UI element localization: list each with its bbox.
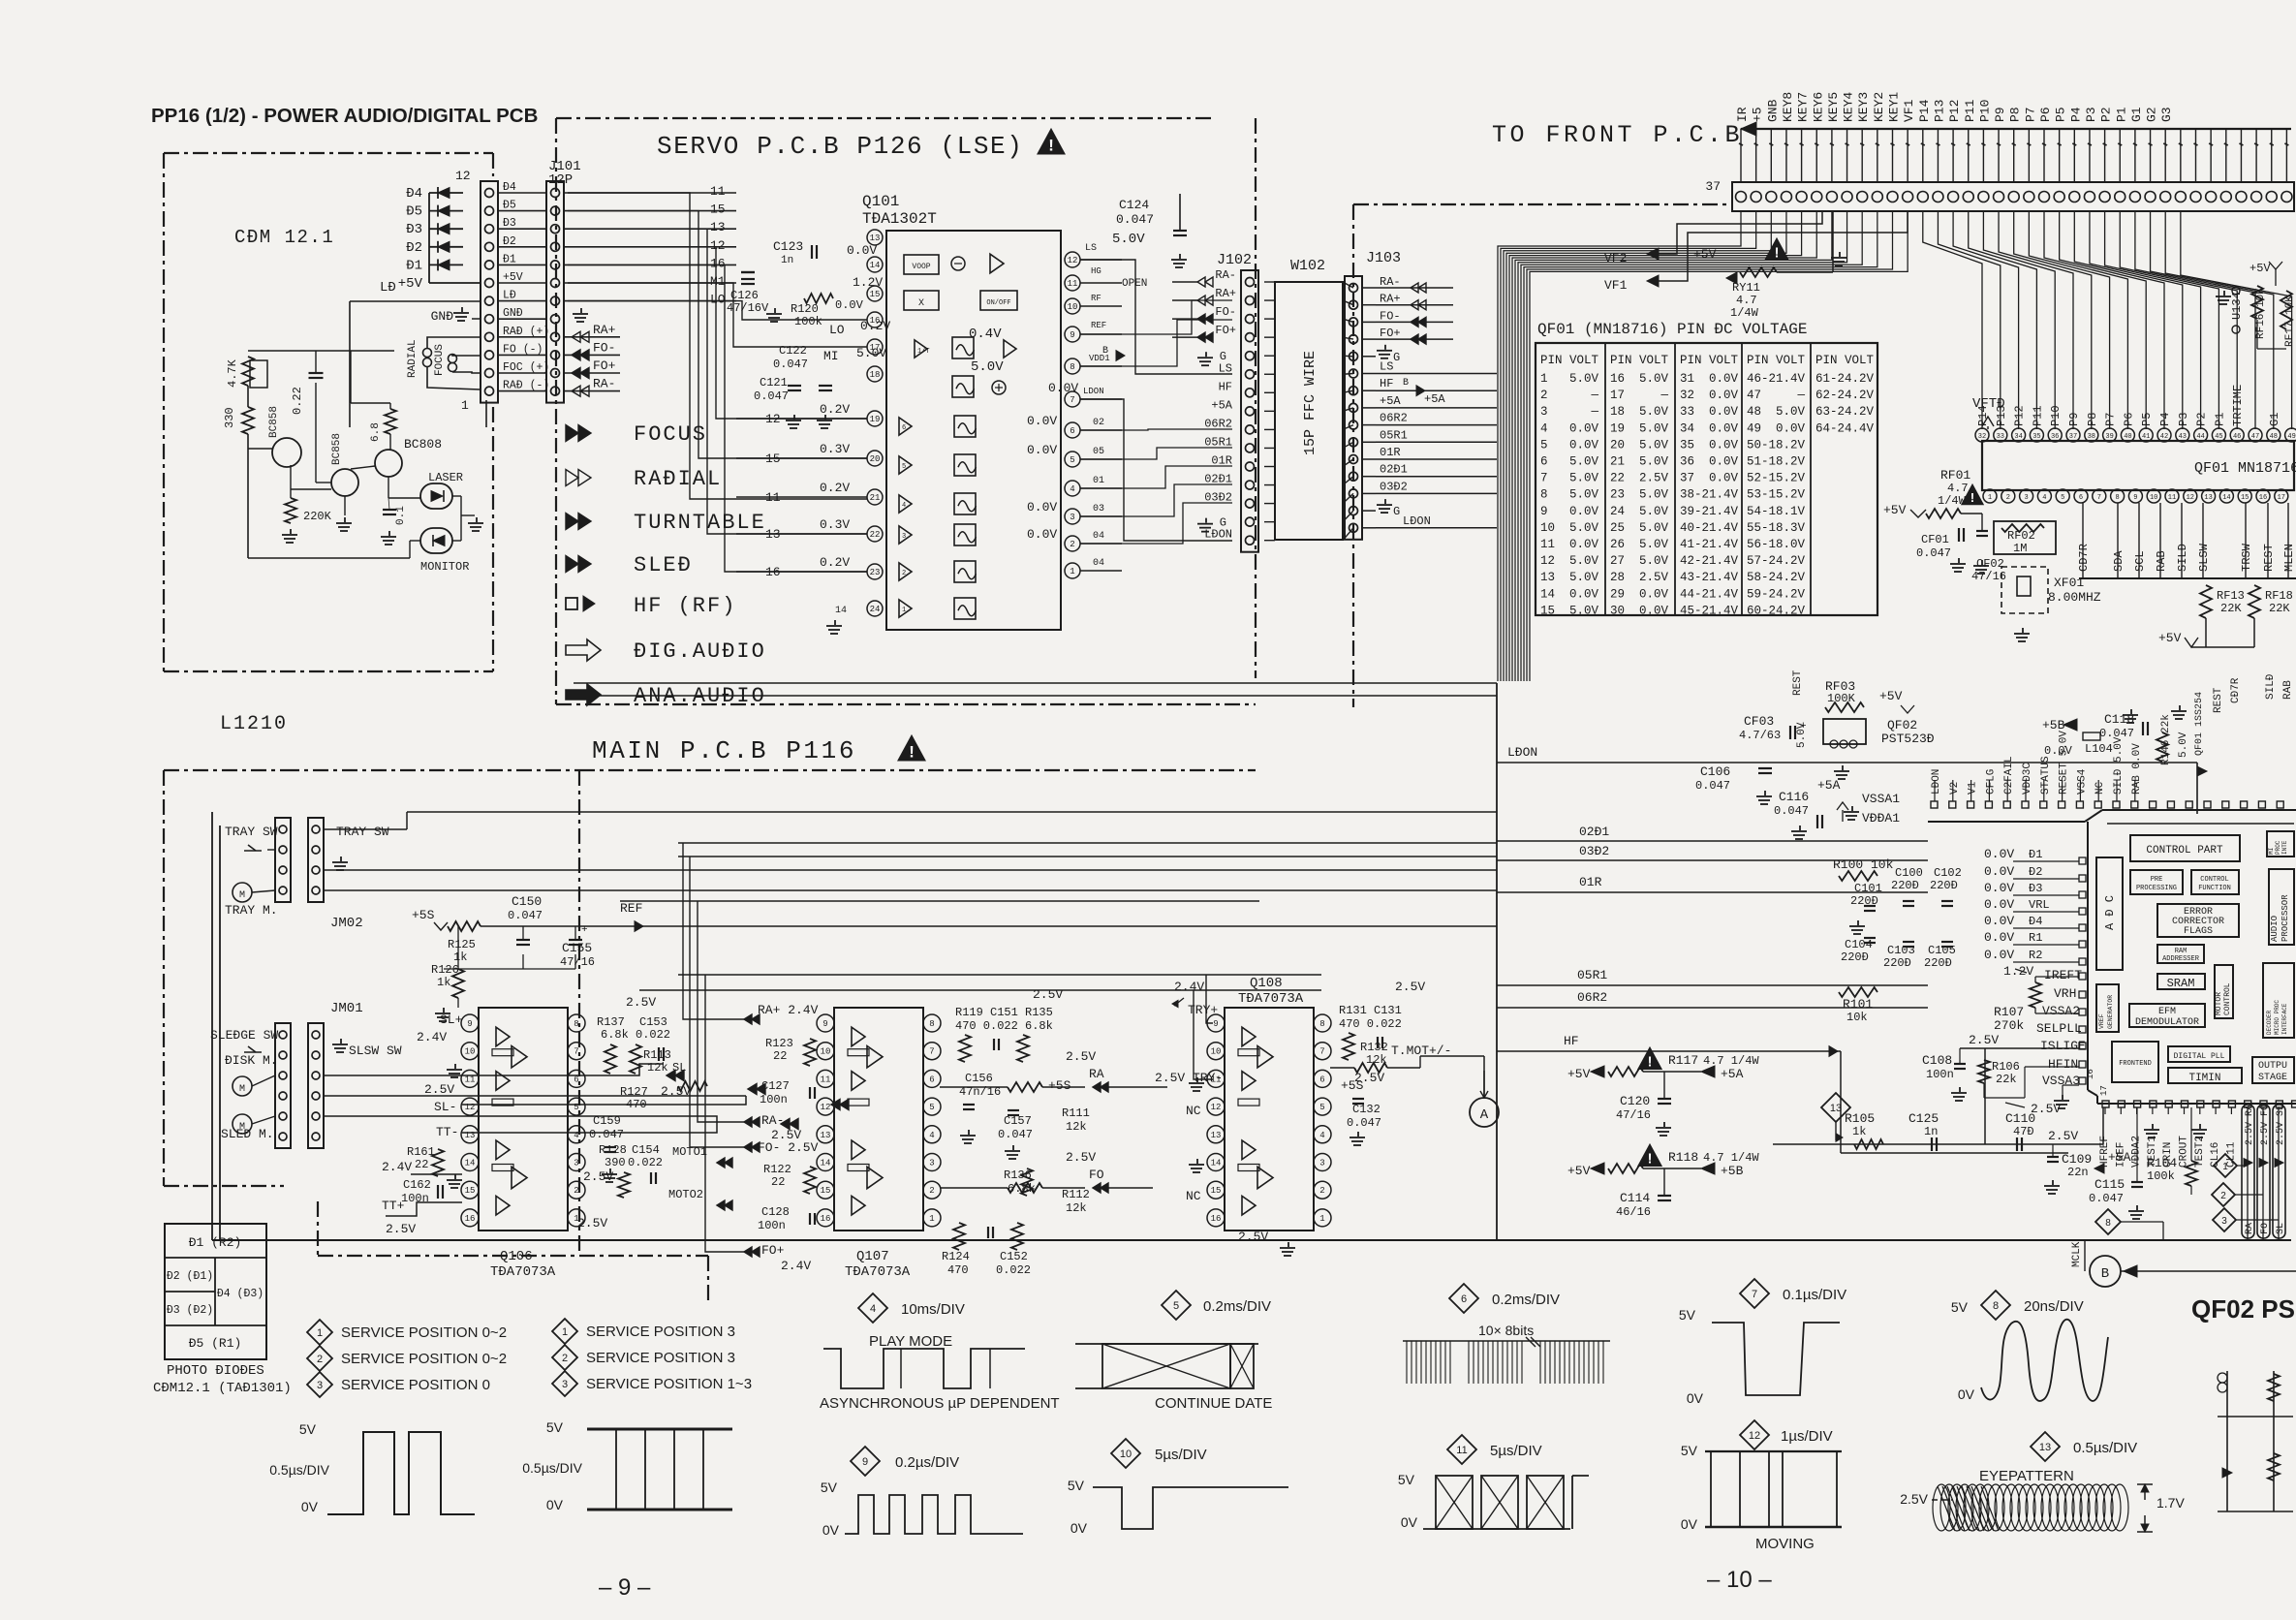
svg-text:PST523Ð: PST523Ð xyxy=(1881,732,1935,746)
svg-text:Q106: Q106 xyxy=(500,1249,533,1264)
svg-text:40: 40 xyxy=(2124,433,2131,441)
svg-text:03Ð2: 03Ð2 xyxy=(1579,844,1609,858)
svg-text:4: 4 xyxy=(574,1131,578,1140)
svg-text:01R: 01R xyxy=(1211,454,1232,468)
svg-text:MOTO2: MOTO2 xyxy=(668,1188,703,1201)
svg-text:0.0V: 0.0V xyxy=(1984,948,2014,962)
svg-text:0.0V: 0.0V xyxy=(835,298,864,312)
svg-text:R136: R136 xyxy=(1004,1168,1032,1182)
svg-text:5: 5 xyxy=(902,463,906,471)
svg-text:R131 C131: R131 C131 xyxy=(1339,1004,1402,1017)
svg-text:0.0V: 0.0V xyxy=(1776,421,1806,435)
svg-text:4.7K: 4.7K xyxy=(226,358,239,388)
svg-text:PRE: PRE xyxy=(2151,876,2163,884)
svg-text:0.0V: 0.0V xyxy=(1569,505,1599,518)
svg-text:6.8: 6.8 xyxy=(370,422,382,442)
svg-text:9: 9 xyxy=(1540,505,1548,518)
svg-text:11: 11 xyxy=(821,1075,831,1084)
svg-text:24: 24 xyxy=(870,605,881,614)
svg-text:C127: C127 xyxy=(761,1079,790,1093)
svg-text:R120: R120 xyxy=(791,302,819,316)
svg-text:SÐA: SÐA xyxy=(2112,550,2125,572)
svg-text:05R1: 05R1 xyxy=(1380,428,1408,442)
svg-text:2.5V: 2.5V xyxy=(1639,472,1669,485)
svg-text:RA+: RA+ xyxy=(1215,287,1236,300)
svg-text:16: 16 xyxy=(710,256,726,270)
svg-text:100K: 100K xyxy=(1827,692,1856,705)
svg-text:J102: J102 xyxy=(1217,252,1252,268)
svg-text:18: 18 xyxy=(870,370,881,380)
svg-text:38: 38 xyxy=(1680,488,1694,502)
svg-text:NC: NC xyxy=(1186,1189,1201,1203)
svg-text:3: 3 xyxy=(2221,1216,2227,1227)
svg-text:220Ð: 220Ð xyxy=(1883,956,1911,970)
svg-text:PIN VOLT: PIN VOLT xyxy=(1747,354,1806,367)
svg-text:15: 15 xyxy=(1540,604,1555,617)
svg-text:RA+: RA+ xyxy=(593,323,616,337)
svg-text:INTERFACE: INTERFACE xyxy=(2281,1003,2288,1035)
svg-text:1n: 1n xyxy=(781,255,793,266)
svg-text:3: 3 xyxy=(902,533,906,541)
svg-text:13: 13 xyxy=(1211,1131,1222,1140)
svg-text:R123: R123 xyxy=(765,1037,793,1050)
svg-text:LDON: LDON xyxy=(1083,387,1104,396)
svg-text:1: 1 xyxy=(1070,567,1074,576)
svg-text:R107: R107 xyxy=(1994,1005,2024,1019)
svg-text:CF01: CF01 xyxy=(1921,533,1949,546)
svg-text:15: 15 xyxy=(870,290,881,299)
svg-text:9: 9 xyxy=(1070,330,1074,340)
svg-text:2: 2 xyxy=(2220,1191,2226,1201)
svg-text:46: 46 xyxy=(1747,372,1761,386)
svg-text:2: 2 xyxy=(317,1354,323,1365)
svg-text:12P: 12P xyxy=(548,172,573,188)
svg-text:C104: C104 xyxy=(1845,938,1873,951)
svg-text:TRSW: TRSW xyxy=(2240,543,2253,572)
svg-text:SELPLL: SELPLL xyxy=(2036,1021,2082,1036)
svg-text:X: X xyxy=(918,298,924,309)
svg-text:RA+: RA+ xyxy=(1380,293,1401,306)
svg-text:P13: P13 xyxy=(1995,405,2008,426)
svg-text:20: 20 xyxy=(1610,438,1625,452)
svg-text:FO+: FO+ xyxy=(761,1243,785,1258)
svg-text:3: 3 xyxy=(929,1159,934,1168)
svg-text:VSSA1: VSSA1 xyxy=(1862,792,1900,806)
svg-text:VF2: VF2 xyxy=(1604,251,1627,265)
svg-text:04: 04 xyxy=(1093,558,1104,569)
svg-text:+5A: +5A xyxy=(1424,392,1445,406)
svg-text:LÐ: LÐ xyxy=(380,280,396,296)
svg-text:P3: P3 xyxy=(2177,413,2190,426)
svg-text:0.1µs/DIV: 0.1µs/DIV xyxy=(1783,1287,1846,1303)
svg-text:0.0V: 0.0V xyxy=(1984,930,2014,945)
svg-text:VOOP: VOOP xyxy=(912,263,930,271)
svg-text:01R: 01R xyxy=(1380,446,1401,459)
svg-text:C114: C114 xyxy=(1620,1191,1650,1205)
svg-text:0.2V: 0.2V xyxy=(860,319,890,333)
svg-text:C154: C154 xyxy=(632,1143,660,1157)
svg-text:0.0V: 0.0V xyxy=(1048,381,1078,395)
svg-text:05: 05 xyxy=(1093,447,1104,457)
svg-text:8: 8 xyxy=(2105,1218,2111,1229)
svg-text:TÐA7073A: TÐA7073A xyxy=(1238,991,1304,1007)
svg-text:11: 11 xyxy=(1456,1445,1467,1456)
svg-text:0.0V: 0.0V xyxy=(1984,864,2014,879)
svg-text:R2: R2 xyxy=(2029,949,2042,962)
svg-text:5µs/DIV: 5µs/DIV xyxy=(1490,1443,1542,1459)
svg-text:0.0V: 0.0V xyxy=(1709,438,1739,452)
svg-text:ÐISK M.: ÐISK M. xyxy=(225,1053,278,1068)
svg-text:Ð5: Ð5 xyxy=(406,204,422,220)
svg-text:A: A xyxy=(1480,1107,1489,1123)
svg-text:R161: R161 xyxy=(407,1145,435,1159)
svg-text:P11: P11 xyxy=(1963,99,1977,122)
svg-text:0V: 0V xyxy=(301,1499,319,1514)
svg-text:21: 21 xyxy=(870,493,881,503)
svg-text:57: 57 xyxy=(1747,554,1761,568)
svg-text:BC858: BC858 xyxy=(268,406,280,438)
svg-text:56: 56 xyxy=(1747,538,1761,551)
svg-text:P9: P9 xyxy=(1993,107,2007,122)
svg-text:SERVICE POSITION 3: SERVICE POSITION 3 xyxy=(586,1350,735,1366)
svg-text:C106: C106 xyxy=(1700,764,1730,779)
svg-text:Q108: Q108 xyxy=(1250,976,1283,991)
svg-text:3: 3 xyxy=(562,1379,568,1390)
svg-text:Ð4: Ð4 xyxy=(2029,915,2042,928)
svg-text:9: 9 xyxy=(1213,1019,1218,1029)
svg-text:NC: NC xyxy=(2094,781,2106,794)
svg-text:0.5µs/DIV: 0.5µs/DIV xyxy=(2073,1440,2137,1456)
svg-text:0.0V: 0.0V xyxy=(1027,443,1057,457)
svg-text:48: 48 xyxy=(2270,433,2278,441)
svg-text:2: 2 xyxy=(574,1186,578,1196)
svg-text:Q101: Q101 xyxy=(862,193,899,210)
svg-text:5.0V: 5.0V xyxy=(1639,554,1669,568)
svg-text:61: 61 xyxy=(1815,372,1830,386)
svg-text:AUDIO: AUDIO xyxy=(2270,916,2280,942)
svg-text:32: 32 xyxy=(1680,389,1694,402)
svg-text:470 0.022 6.8k: 470 0.022 6.8k xyxy=(955,1019,1053,1033)
svg-text:M: M xyxy=(239,1122,245,1133)
svg-text:FO+: FO+ xyxy=(1215,324,1236,337)
svg-text:0.047: 0.047 xyxy=(508,909,543,922)
svg-text:0.0V: 0.0V xyxy=(1709,372,1739,386)
svg-text:Ð3: Ð3 xyxy=(406,222,422,237)
svg-text:6: 6 xyxy=(929,1075,934,1084)
svg-text:2: 2 xyxy=(562,1353,568,1364)
svg-text:MOVING: MOVING xyxy=(1755,1536,1815,1552)
svg-text:2: 2 xyxy=(1070,540,1074,549)
svg-text:—: — xyxy=(1796,389,1805,402)
svg-text:100n: 100n xyxy=(401,1192,429,1205)
svg-text:C126: C126 xyxy=(730,289,759,302)
svg-text:P5: P5 xyxy=(2054,107,2068,122)
svg-text:22: 22 xyxy=(771,1175,785,1189)
svg-text:10: 10 xyxy=(1068,302,1078,312)
svg-text:15: 15 xyxy=(821,1186,831,1196)
svg-text:1: 1 xyxy=(1319,1214,1324,1224)
svg-text:5.0V: 5.0V xyxy=(856,346,886,360)
svg-text:0V: 0V xyxy=(1687,1390,1704,1406)
svg-text:2.5V: 2.5V xyxy=(577,1216,607,1231)
svg-text:G1: G1 xyxy=(2129,107,2144,122)
svg-text:5.0V: 5.0V xyxy=(1776,405,1806,419)
svg-text:2.5V: 2.5V xyxy=(1639,571,1669,584)
svg-text:B: B xyxy=(1102,346,1108,357)
svg-text:60: 60 xyxy=(1747,604,1761,617)
svg-text:CONTINUE DATE: CONTINUE DATE xyxy=(1155,1395,1272,1412)
svg-text:0.0V: 0.0V xyxy=(1984,847,2014,861)
svg-text:2.4V: 2.4V xyxy=(417,1030,447,1044)
svg-text:!: ! xyxy=(909,743,915,762)
svg-text:0.0V: 0.0V xyxy=(1709,472,1739,485)
svg-text:KEY8: KEY8 xyxy=(1781,92,1795,122)
svg-text:-21.4V: -21.4V xyxy=(1694,604,1739,617)
svg-text:470: 470 xyxy=(947,1263,969,1277)
svg-text:12: 12 xyxy=(2187,494,2194,502)
svg-text:0.047: 0.047 xyxy=(1116,212,1154,227)
svg-text:P10: P10 xyxy=(1977,100,1992,122)
svg-text:R100 10k: R100 10k xyxy=(1833,857,1894,872)
svg-text:OPEN: OPEN xyxy=(1122,278,1147,290)
svg-text:24: 24 xyxy=(1610,505,1625,518)
svg-text:RF17 10K: RF17 10K xyxy=(2284,296,2296,347)
svg-text:PIN VOLT: PIN VOLT xyxy=(1610,354,1669,367)
svg-text:KEY5: KEY5 xyxy=(1826,92,1841,122)
svg-text:4: 4 xyxy=(1540,421,1548,435)
svg-text:35: 35 xyxy=(1680,438,1694,452)
svg-text:FOCUS: FOCUS xyxy=(634,422,707,447)
svg-text:R128: R128 xyxy=(599,1143,627,1157)
svg-text:5.0V: 5.0V xyxy=(1639,372,1669,386)
svg-text:20ns/DIV: 20ns/DIV xyxy=(2024,1298,2084,1315)
svg-text:W102: W102 xyxy=(1290,258,1325,274)
svg-text:HF: HF xyxy=(1564,1034,1579,1048)
svg-text:2: 2 xyxy=(1319,1186,1324,1196)
svg-text:Ð4: Ð4 xyxy=(406,186,422,202)
svg-text:6.8k: 6.8k xyxy=(601,1028,629,1042)
svg-text:5.0V: 5.0V xyxy=(1569,455,1599,469)
svg-text:LS: LS xyxy=(1219,361,1232,375)
svg-text:-18.2V: -18.2V xyxy=(1761,438,1806,452)
svg-text:0.0V: 0.0V xyxy=(1709,455,1739,469)
svg-text:0.1: 0.1 xyxy=(395,506,407,525)
svg-text:TO FRONT P.C.B: TO FRONT P.C.B xyxy=(1492,121,1743,149)
svg-text:FO-: FO- xyxy=(1380,309,1401,323)
svg-text:2.5V: 2.5V xyxy=(1900,1491,1928,1507)
svg-text:5.0V: 5.0V xyxy=(1112,232,1145,247)
svg-text:7: 7 xyxy=(1319,1047,1324,1057)
svg-text:04: 04 xyxy=(1093,531,1104,542)
svg-text:+5S: +5S xyxy=(412,908,435,922)
svg-text:11: 11 xyxy=(2168,494,2176,502)
svg-text:0.2ms/DIV: 0.2ms/DIV xyxy=(1203,1298,1271,1315)
svg-text:03Ð2: 03Ð2 xyxy=(1380,480,1408,493)
svg-text:SERVICE POSITION 0~2: SERVICE POSITION 0~2 xyxy=(341,1324,507,1341)
svg-text:SLEÐGE SW: SLEÐGE SW xyxy=(210,1028,278,1043)
svg-text:TRAY M.: TRAY M. xyxy=(225,903,278,918)
svg-text:TRY+: TRY+ xyxy=(1188,1003,1218,1017)
svg-text:10: 10 xyxy=(465,1047,476,1057)
svg-text:CF03: CF03 xyxy=(1744,714,1774,729)
svg-text:4.7 1/4W: 4.7 1/4W xyxy=(1703,1151,1759,1165)
svg-text:1k: 1k xyxy=(437,976,450,989)
svg-text:REST: REST xyxy=(1792,670,1804,696)
svg-text:+5V: +5V xyxy=(1879,689,1903,703)
svg-text:1.2V: 1.2V xyxy=(853,275,883,290)
svg-text:LASER: LASER xyxy=(428,471,463,484)
svg-text:—: — xyxy=(1590,405,1598,419)
svg-text:55: 55 xyxy=(1747,521,1761,535)
svg-text:12: 12 xyxy=(1211,1103,1222,1112)
svg-text:7: 7 xyxy=(574,1047,578,1057)
svg-text:PHOTO ÐIOÐES: PHOTO ÐIOÐES xyxy=(167,1363,264,1379)
svg-text:5V: 5V xyxy=(546,1419,564,1435)
svg-text:14: 14 xyxy=(1211,1159,1222,1168)
svg-text:C124: C124 xyxy=(1119,198,1149,212)
svg-text:5V: 5V xyxy=(821,1480,838,1495)
svg-text:G: G xyxy=(1393,505,1400,518)
svg-text:Ð2: Ð2 xyxy=(2029,865,2042,879)
svg-text:5.0V: 5.0V xyxy=(971,359,1004,375)
svg-text:1: 1 xyxy=(461,398,469,413)
svg-text:19: 19 xyxy=(870,415,881,424)
svg-text:C101: C101 xyxy=(1854,882,1882,895)
svg-text:8: 8 xyxy=(1993,1300,1999,1312)
svg-text:6: 6 xyxy=(1319,1075,1324,1084)
svg-text:CÐ7R: CÐ7R xyxy=(2077,544,2091,572)
svg-text:0.047: 0.047 xyxy=(2099,727,2134,740)
svg-text:!: ! xyxy=(1970,490,1974,505)
svg-text:RY11: RY11 xyxy=(1732,281,1760,295)
svg-text:+5S: +5S xyxy=(1048,1078,1071,1093)
svg-text:JM01: JM01 xyxy=(330,1001,363,1016)
svg-text:MAIN P.C.B P116: MAIN P.C.B P116 xyxy=(592,736,856,765)
svg-text:Q107: Q107 xyxy=(856,1249,889,1264)
svg-text:SERVICE POSITION 0~2: SERVICE POSITION 0~2 xyxy=(341,1351,507,1367)
svg-text:0.047: 0.047 xyxy=(2089,1192,2124,1205)
svg-text:!: ! xyxy=(1648,1055,1653,1071)
svg-text:P2: P2 xyxy=(2099,107,2114,122)
svg-text:35: 35 xyxy=(2032,433,2040,441)
svg-text:PIN VOLT: PIN VOLT xyxy=(1680,354,1739,367)
svg-text:FO+: FO+ xyxy=(593,358,616,373)
svg-text:QF02: QF02 xyxy=(1887,718,1917,732)
svg-text:03Ð2: 03Ð2 xyxy=(1204,491,1232,505)
svg-text:0.047: 0.047 xyxy=(589,1128,624,1141)
svg-text:0.5µs/DIV: 0.5µs/DIV xyxy=(269,1462,329,1478)
svg-text:RADIAL: RADIAL xyxy=(407,339,419,378)
svg-text:05R1: 05R1 xyxy=(1204,435,1232,449)
svg-text:P6: P6 xyxy=(2038,107,2053,122)
svg-text:5.0V: 5.0V xyxy=(1639,455,1669,469)
svg-text:05R1: 05R1 xyxy=(1577,968,1607,982)
svg-text:VSSA3: VSSA3 xyxy=(2042,1074,2080,1088)
svg-text:100k: 100k xyxy=(794,315,822,328)
svg-text:14: 14 xyxy=(870,261,881,270)
svg-text:R127: R127 xyxy=(620,1085,648,1099)
svg-text:22n: 22n xyxy=(2067,1166,2089,1179)
svg-text:0.0V: 0.0V xyxy=(847,243,877,258)
svg-text:3: 3 xyxy=(1319,1159,1324,1168)
svg-text:47/16V: 47/16V xyxy=(727,301,769,315)
svg-text:C110: C110 xyxy=(2005,1111,2035,1126)
svg-text:Ð2 (Ð1): Ð2 (Ð1) xyxy=(167,1270,213,1283)
svg-text:15: 15 xyxy=(1211,1186,1222,1196)
svg-text:06R2: 06R2 xyxy=(1577,990,1607,1005)
svg-text:CFLG: CFLG xyxy=(1985,769,1997,794)
svg-text:– 9 –: – 9 – xyxy=(599,1574,651,1601)
svg-text:-24.2V: -24.2V xyxy=(1761,571,1806,584)
svg-text:-24.2V: -24.2V xyxy=(1830,389,1875,402)
svg-text:16: 16 xyxy=(2259,494,2267,502)
svg-text:5.0V: 5.0V xyxy=(1639,405,1669,419)
svg-text:12k: 12k xyxy=(1066,1120,1087,1134)
svg-text:01R: 01R xyxy=(1579,875,1602,889)
svg-text:SCL: SCL xyxy=(2133,550,2147,572)
svg-text:VF1: VF1 xyxy=(1604,278,1628,293)
svg-text:-21.4V: -21.4V xyxy=(1694,505,1739,518)
svg-text:ÐIG.AUÐIO: ÐIG.AUÐIO xyxy=(634,639,766,664)
svg-text:100k: 100k xyxy=(2147,1169,2175,1183)
svg-text:0.022: 0.022 xyxy=(636,1028,670,1042)
svg-text:0V: 0V xyxy=(1401,1514,1418,1530)
svg-text:CONTROL: CONTROL xyxy=(2223,982,2232,1015)
svg-text:C109: C109 xyxy=(2062,1152,2092,1167)
svg-text:TIMIN: TIMIN xyxy=(2188,1073,2220,1084)
svg-text:33: 33 xyxy=(1997,433,2004,441)
svg-text:P8: P8 xyxy=(2008,107,2023,122)
svg-text:+5A: +5A xyxy=(1211,398,1232,412)
svg-text:PIN VOLT: PIN VOLT xyxy=(1540,354,1599,367)
svg-text:7: 7 xyxy=(1752,1289,1757,1300)
svg-text:RAB 0.0V: RAB 0.0V xyxy=(2131,743,2143,794)
svg-text:4.7 1/4W: 4.7 1/4W xyxy=(1703,1054,1759,1068)
svg-text:HF (RF): HF (RF) xyxy=(634,594,736,618)
svg-text:0.047: 0.047 xyxy=(754,389,789,403)
svg-text:5V: 5V xyxy=(1681,1443,1698,1458)
svg-text:470: 470 xyxy=(626,1098,647,1111)
svg-text:KEY6: KEY6 xyxy=(1811,92,1825,122)
svg-text:17: 17 xyxy=(2278,494,2285,502)
svg-text:R119 C151 R135: R119 C151 R135 xyxy=(955,1006,1053,1019)
svg-text:-18.3V: -18.3V xyxy=(1761,521,1806,535)
svg-text:22k: 22k xyxy=(1996,1073,2017,1086)
svg-text:34: 34 xyxy=(2014,433,2022,441)
svg-text:LÐON: LÐON xyxy=(1507,745,1537,760)
svg-text:-15.2V: -15.2V xyxy=(1761,472,1806,485)
svg-text:32: 32 xyxy=(1978,433,1986,441)
svg-text:2: 2 xyxy=(902,570,906,577)
svg-text:FRONTEND: FRONTEND xyxy=(2119,1060,2152,1068)
svg-text:8: 8 xyxy=(574,1019,578,1029)
svg-text:0.5µs/DIV: 0.5µs/DIV xyxy=(522,1460,582,1476)
svg-text:HF: HF xyxy=(1380,377,1393,390)
svg-text:RAÐIAL: RAÐIAL xyxy=(634,467,722,491)
svg-text:0.0V: 0.0V xyxy=(1709,389,1739,402)
svg-text:2.5V: 2.5V xyxy=(626,995,656,1010)
svg-text:C108: C108 xyxy=(1922,1053,1952,1068)
svg-text:R118: R118 xyxy=(1668,1150,1698,1165)
svg-text:Ð4: Ð4 xyxy=(503,181,516,194)
svg-text:2.5V: 2.5V xyxy=(1066,1049,1096,1064)
svg-text:+5B: +5B xyxy=(1721,1164,1744,1178)
svg-text:FO-: FO- xyxy=(1215,305,1236,319)
svg-text:RA-: RA- xyxy=(761,1113,784,1128)
svg-text:C123: C123 xyxy=(773,239,803,254)
svg-text:5: 5 xyxy=(1540,438,1548,452)
svg-text:51: 51 xyxy=(1747,455,1761,469)
